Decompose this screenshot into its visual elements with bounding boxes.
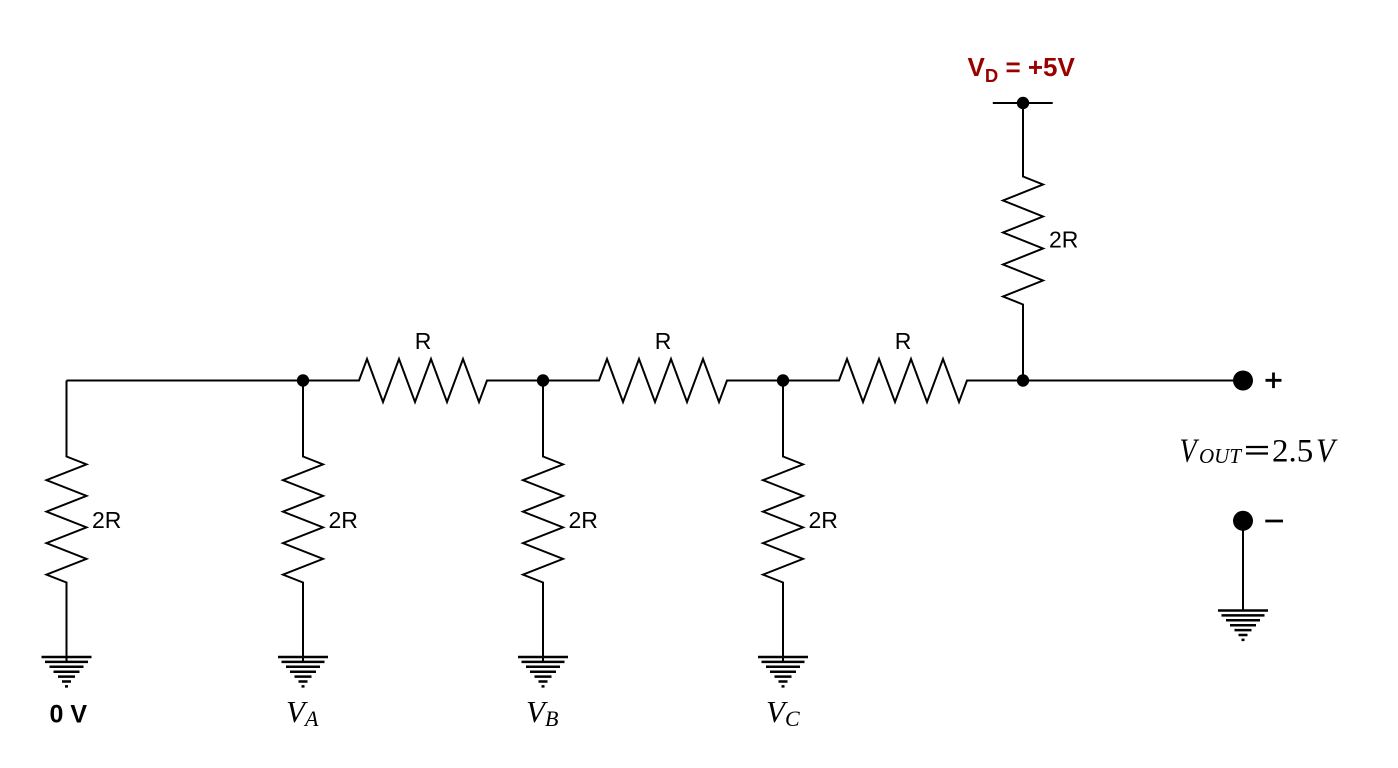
svg-text:VD = +5V: VD = +5V <box>968 52 1076 86</box>
svg-text:R: R <box>415 328 432 354</box>
svg-text:0 V: 0 V <box>50 701 88 729</box>
svg-text:2R: 2R <box>569 507 598 533</box>
svg-text:2R: 2R <box>92 507 121 533</box>
svg-text:R: R <box>655 328 672 354</box>
svg-text:2R: 2R <box>809 507 838 533</box>
svg-text:OUT: OUT <box>1199 444 1242 468</box>
svg-text:R: R <box>895 328 912 354</box>
svg-text:2R: 2R <box>1049 227 1078 253</box>
svg-text:2R: 2R <box>329 507 358 533</box>
svg-text:V: V <box>1180 431 1200 469</box>
svg-text:VB: VB <box>526 694 558 731</box>
svg-text:2.5: 2.5 <box>1272 434 1313 470</box>
svg-text:V: V <box>1316 431 1338 469</box>
svg-text:VC: VC <box>766 694 800 731</box>
svg-text:VA: VA <box>286 694 319 731</box>
